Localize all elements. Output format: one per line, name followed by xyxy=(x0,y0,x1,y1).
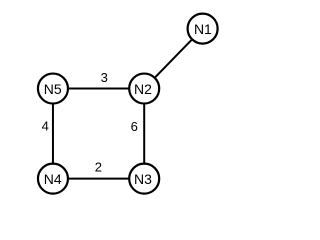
wire N2-N1 xyxy=(144,29,202,89)
svg-text:4: 4 xyxy=(42,118,49,133)
wire N4-N3 xyxy=(53,178,144,180)
wire N2-N3 xyxy=(143,89,145,179)
wire N5-N4 xyxy=(52,89,54,179)
node N5 xyxy=(38,74,68,104)
wire N5-N2 xyxy=(53,88,144,90)
svg-text:2: 2 xyxy=(95,160,102,175)
node N4 xyxy=(38,164,68,194)
node N2 xyxy=(129,74,159,104)
svg-text:3: 3 xyxy=(101,70,108,85)
svg-text:N4: N4 xyxy=(44,171,62,187)
svg-text:N5: N5 xyxy=(44,81,62,97)
svg-text:6: 6 xyxy=(131,119,138,134)
svg-text:N3: N3 xyxy=(134,171,152,187)
svg-text:N1: N1 xyxy=(194,21,212,37)
node N3 xyxy=(129,164,159,194)
node N1 xyxy=(188,14,218,44)
svg-text:N2: N2 xyxy=(134,81,152,97)
